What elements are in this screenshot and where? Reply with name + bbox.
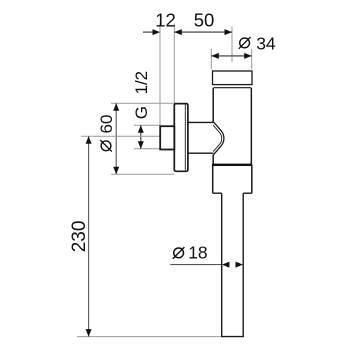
extension lines dim G 1/2 (nut top/bottom) [134, 125, 161, 148]
label 12 [155, 9, 176, 30]
outlet pipe [221, 193, 244, 336]
dim line Ø34 with arrows [211, 53, 251, 59]
svg-text:34: 34 [256, 33, 276, 53]
svg-text:12: 12 [155, 9, 176, 30]
dim line Ø60 with arrows [113, 103, 119, 174]
svg-text:G: G [132, 106, 151, 119]
dim line 50 with arrows [174, 29, 232, 35]
extension lines dim Ø60 (flange top/bottom) [111, 103, 175, 174]
extension centerline of valve (right end of dim 50) [231, 27, 233, 63]
inlet dome cone [213, 122, 224, 156]
svg-text:1/2: 1/2 [132, 71, 151, 95]
extension line 230 top (valve inlet centerline) [81, 135, 160, 137]
extension line left of dim 12 (nut left face) [159, 24, 161, 126]
label Ø18 [173, 243, 208, 263]
svg-text:230: 230 [69, 221, 90, 253]
label 50 [194, 9, 215, 30]
svg-text:60: 60 [97, 115, 116, 134]
wall flange [174, 104, 188, 172]
valve lower body [213, 165, 252, 193]
dim line G 1/2 with arrows [138, 125, 144, 148]
label G 1/2 (rotated) [132, 71, 151, 119]
cap groove line [214, 87, 251, 89]
inlet neck tube [188, 122, 214, 153]
extension line 230 bottom (pipe end) [77, 336, 221, 338]
extension line right of dim 12 (flange/wall face) [173, 24, 175, 104]
svg-text:50: 50 [194, 9, 215, 30]
union nut G 1/2 [160, 126, 174, 149]
body separator thick line [212, 164, 252, 166]
dim line 12 tail with arrow [143, 29, 160, 35]
label Ø60 (rotated) [97, 115, 116, 152]
label Ø34 [239, 33, 276, 53]
dim line Ø18 leader and arrows [170, 262, 243, 268]
valve upper body walls [213, 88, 251, 165]
extension lines dim Ø34 [211, 49, 251, 69]
dim line 230 with arrows [86, 136, 92, 336]
label 230 (rotated) [69, 221, 90, 253]
valve top cap [213, 71, 253, 85]
svg-text:18: 18 [188, 243, 207, 263]
